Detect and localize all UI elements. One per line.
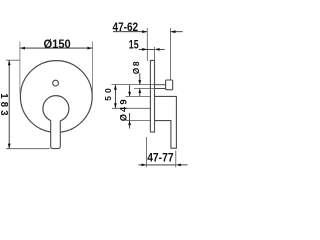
svg-text:183: 183 [0,93,9,116]
svg-text:Ø49: Ø49 [119,100,129,122]
svg-text:47-77: 47-77 [147,150,174,164]
svg-text:Ø150: Ø150 [44,37,71,51]
svg-text:15: 15 [129,37,139,51]
